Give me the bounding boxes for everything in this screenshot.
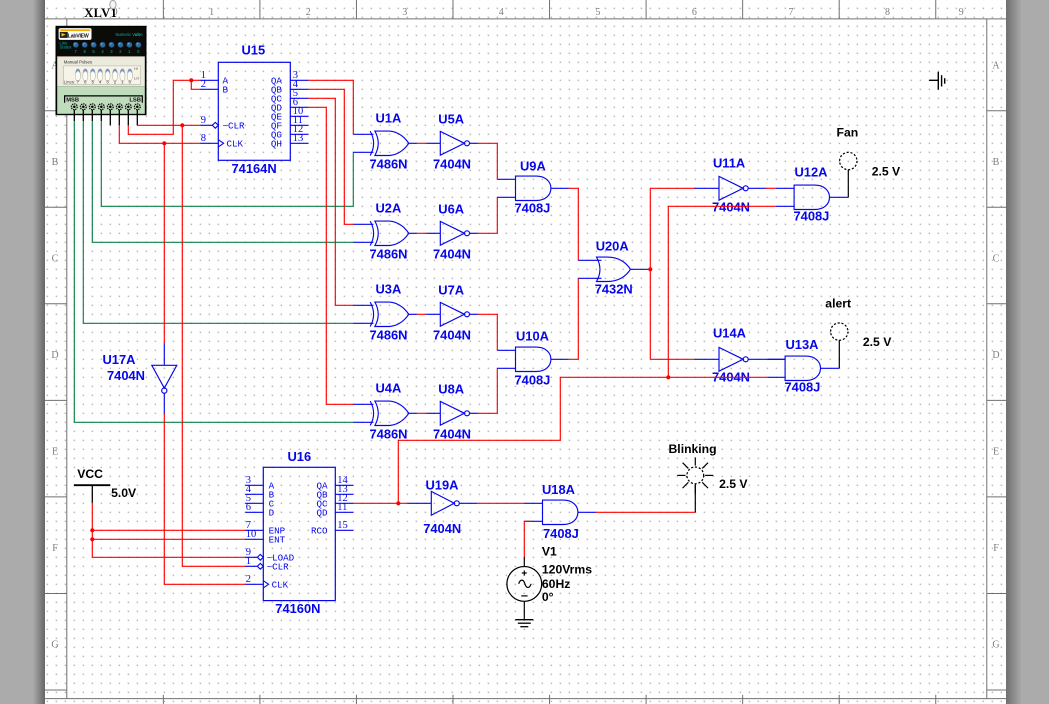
OR gate U20A 7432N [578, 239, 650, 297]
XOR gate U1A 7486N [353, 111, 417, 172]
wire U12A out to Fan lamp [847, 170, 849, 198]
svg-text:U20A: U20A [596, 239, 629, 254]
wire U19A out to U18A input A [478, 502, 525, 504]
svg-text:7: 7 [788, 7, 793, 18]
wire V1 to U18A input B [524, 521, 531, 557]
junction VCC/ENT [90, 537, 94, 541]
svg-text:1: 1 [209, 7, 214, 18]
indicator lamp alert 2.5 V [825, 297, 892, 350]
svg-text:D: D [269, 508, 275, 519]
inverter U17A 7404N (clock inverter) [103, 343, 177, 414]
indicator lamp Blinking 2.5 V [669, 442, 749, 493]
ground [515, 620, 533, 627]
svg-text:8: 8 [885, 7, 890, 18]
counter U16 74160N [245, 449, 353, 616]
svg-text:MSB: MSB [66, 98, 79, 104]
wire U15 QB to U2A input A [308, 89, 353, 224]
wire U6A out to U9A input B [478, 197, 497, 233]
svg-text:8: 8 [201, 133, 206, 144]
wire U15 QD to U4A input A [308, 107, 353, 404]
svg-text:13: 13 [293, 133, 304, 144]
svg-text:2: 2 [306, 7, 311, 18]
svg-text:U8A: U8A [438, 382, 464, 397]
XOR gate U4A 7486N [353, 381, 417, 442]
junction QC net split [666, 375, 670, 379]
svg-text:E: E [993, 447, 999, 458]
AND gate U12A 7408J [776, 165, 848, 224]
svg-text:Blinking: Blinking [669, 442, 717, 456]
svg-text:E: E [52, 447, 58, 458]
svg-text:F: F [52, 543, 58, 554]
svg-text:U2A: U2A [376, 201, 402, 216]
svg-text:F: F [993, 543, 999, 554]
svg-text:U12A: U12A [795, 165, 828, 180]
svg-text:U6A: U6A [438, 202, 464, 217]
svg-text:CLK: CLK [272, 580, 289, 591]
svg-text:A: A [992, 60, 1000, 71]
svg-text:~CLR: ~CLR [223, 121, 246, 132]
svg-text:Lines:: Lines: [64, 79, 75, 84]
wire U15 QC to U3A input A [308, 98, 353, 305]
svg-text:D: D [51, 350, 58, 361]
wire V1 to ground [523, 601, 525, 619]
svg-text:7408J: 7408J [515, 201, 551, 216]
svg-text:U18A: U18A [542, 482, 575, 497]
svg-text:LSB: LSB [129, 98, 141, 104]
svg-text:9: 9 [959, 7, 964, 18]
wire U18A out to Blinking lamp [596, 484, 695, 513]
XOR gate U3A 7486N [353, 282, 417, 343]
inverter U19A 7404N [407, 478, 477, 537]
svg-text:7404N: 7404N [433, 247, 471, 262]
svg-text:U19A: U19A [426, 478, 459, 493]
svg-text:U15: U15 [242, 43, 266, 58]
svg-text:120Vrms: 120Vrms [542, 563, 592, 577]
inverter U7A 7404N [426, 283, 478, 343]
svg-text:D: D [992, 350, 999, 361]
svg-text:U14A: U14A [713, 326, 746, 341]
svg-text:C: C [993, 254, 1000, 265]
svg-text:U16: U16 [288, 449, 312, 464]
svg-text:LO: LO [134, 76, 139, 80]
svg-text:11: 11 [337, 502, 347, 513]
svg-text:B: B [223, 85, 229, 96]
shift register U15 74164N [200, 43, 308, 176]
svg-text:2.5 V: 2.5 V [863, 335, 892, 349]
svg-text:5: 5 [595, 7, 600, 18]
svg-text:States: States [60, 45, 72, 50]
svg-text:U1A: U1A [376, 111, 402, 126]
wire T8 to U15 ~CLR and U16 ~CLR [137, 125, 245, 566]
wire U16 QC net to U12A/U13A B inputs [398, 206, 776, 503]
svg-text:~CLR: ~CLR [267, 562, 290, 573]
svg-text:60Hz: 60Hz [542, 577, 570, 591]
wire T4 to U1A input B [101, 121, 353, 206]
inverter U14A 7404N [695, 326, 786, 385]
svg-text:7404N: 7404N [712, 200, 750, 215]
wire U11A out to U12A input A [766, 187, 776, 189]
svg-text:1: 1 [246, 556, 251, 567]
LabVIEW instrument XLV1 [56, 0, 146, 114]
svg-text:7404N: 7404N [107, 368, 145, 383]
svg-text:2.5 V: 2.5 V [719, 477, 748, 491]
junction VCC/ENP [90, 528, 94, 532]
svg-text:B: B [52, 157, 59, 168]
wire U17A out to U16 CLK [164, 414, 245, 584]
svg-text:QD: QD [316, 508, 328, 519]
svg-text:7404N: 7404N [423, 521, 461, 536]
svg-text:LabVIEW: LabVIEW [68, 34, 89, 40]
svg-text:U10A: U10A [516, 329, 549, 344]
wire U7A out to U10A input A [478, 314, 497, 350]
svg-text:U4A: U4A [376, 381, 402, 396]
ground (floating, rotated) [929, 72, 945, 90]
svg-text:B: B [993, 157, 1000, 168]
svg-text:V1: V1 [542, 545, 557, 559]
svg-text:7408J: 7408J [543, 526, 579, 541]
svg-text:7408J: 7408J [785, 380, 821, 395]
svg-text:7404N: 7404N [433, 157, 471, 172]
inverter U5A 7404N [426, 112, 478, 172]
inverter U8A 7404N [426, 382, 478, 442]
svg-text:5.0V: 5.0V [111, 486, 137, 500]
svg-text:HI: HI [134, 67, 138, 71]
svg-text:ENT: ENT [269, 535, 286, 546]
svg-text:7486N: 7486N [370, 427, 408, 442]
svg-text:RCO: RCO [311, 526, 328, 537]
svg-text:C: C [52, 254, 59, 265]
instrument terminal stubs [74, 110, 137, 126]
junction U20A output node [648, 267, 652, 271]
wire T7 to U15 A and B [128, 80, 200, 134]
svg-text:Fan: Fan [837, 126, 859, 140]
svg-text:7404N: 7404N [433, 328, 471, 343]
wire U15 QA to U1A input A [308, 80, 353, 134]
wire U10A out to U20A input B [569, 278, 579, 359]
wire T3 to U2A input B [92, 121, 353, 242]
svg-text:9: 9 [201, 115, 206, 126]
svg-text:2: 2 [201, 79, 206, 90]
AC source V1 120Vrms 60Hz 0deg [507, 545, 592, 605]
svg-text:U17A: U17A [103, 352, 136, 367]
svg-text:7404N: 7404N [433, 427, 471, 442]
svg-text:U9A: U9A [520, 159, 546, 174]
svg-text:0°: 0° [542, 590, 554, 604]
svg-text:6: 6 [692, 7, 697, 18]
svg-text:VCC: VCC [77, 467, 103, 481]
svg-text:U13A: U13A [786, 337, 819, 352]
svg-text:G: G [992, 640, 999, 651]
inverter U11A 7404N [695, 156, 767, 215]
inverter U6A 7404N [426, 202, 478, 262]
svg-text:3: 3 [402, 7, 407, 18]
svg-text:G: G [51, 640, 58, 651]
svg-text:7432N: 7432N [595, 282, 633, 297]
wire U16 QC to U19A input [353, 502, 407, 504]
svg-text:6: 6 [246, 502, 251, 513]
svg-text:15: 15 [337, 520, 348, 531]
svg-text:74160N: 74160N [275, 601, 320, 616]
junction T8/~CLR node [180, 123, 184, 127]
svg-text:7486N: 7486N [370, 247, 408, 262]
svg-text:10: 10 [246, 529, 256, 540]
svg-text:U5A: U5A [438, 112, 464, 127]
junction A/B tie [189, 78, 193, 82]
svg-text:7486N: 7486N [370, 328, 408, 343]
wire U2A output to inverter [417, 232, 427, 234]
svg-text:CLK: CLK [227, 139, 244, 150]
AND gate U10A 7408J [497, 329, 568, 388]
AND gate U13A 7408J [768, 337, 839, 395]
wire T6 to U15 CLK and U17A input [119, 125, 200, 343]
svg-text:QH: QH [271, 139, 282, 150]
wire T2 to U3A input B [83, 121, 353, 323]
XOR gate U2A 7486N [353, 201, 417, 262]
svg-text:U3A: U3A [376, 282, 402, 297]
svg-text:7486N: 7486N [370, 157, 408, 172]
svg-text:alert: alert [825, 297, 851, 311]
svg-text:x 0: x 0 [135, 32, 141, 37]
svg-text:2.5 V: 2.5 V [872, 165, 901, 179]
svg-text:2: 2 [246, 574, 251, 585]
svg-text:74164N: 74164N [232, 161, 277, 176]
svg-text:4: 4 [499, 7, 504, 18]
wire U4A output to inverter [417, 412, 427, 414]
svg-text:U11A: U11A [713, 156, 745, 171]
svg-text:Manual Pulses: Manual Pulses [64, 59, 92, 64]
wire U1A output to inverter [417, 142, 427, 144]
AND gate U9A 7408J [497, 159, 568, 216]
svg-text:U7A: U7A [438, 283, 464, 298]
svg-text:7408J: 7408J [794, 209, 830, 224]
wire U9A out to U20A input A [569, 188, 579, 260]
junction QC node [396, 501, 400, 505]
wire T1 (MSB) to U4A input B [74, 121, 353, 422]
AND gate U18A 7408J [524, 482, 596, 541]
indicator lamp Fan 2.5 V [837, 126, 902, 179]
junction T6/CLK node [162, 141, 166, 145]
wire U3A output to inverter [417, 313, 427, 315]
wire U13A out to alert lamp [838, 340, 840, 368]
wire U20A out to U11A and U14A inputs [650, 188, 694, 359]
wire VCC to U16 ENP/ENT/~LOAD [92, 503, 245, 558]
svg-text:7408J: 7408J [515, 373, 551, 388]
power VCC 5.0V [74, 467, 137, 503]
wire U5A out to U9A input A [478, 143, 497, 179]
wire U8A out to U10A input B [478, 368, 497, 413]
